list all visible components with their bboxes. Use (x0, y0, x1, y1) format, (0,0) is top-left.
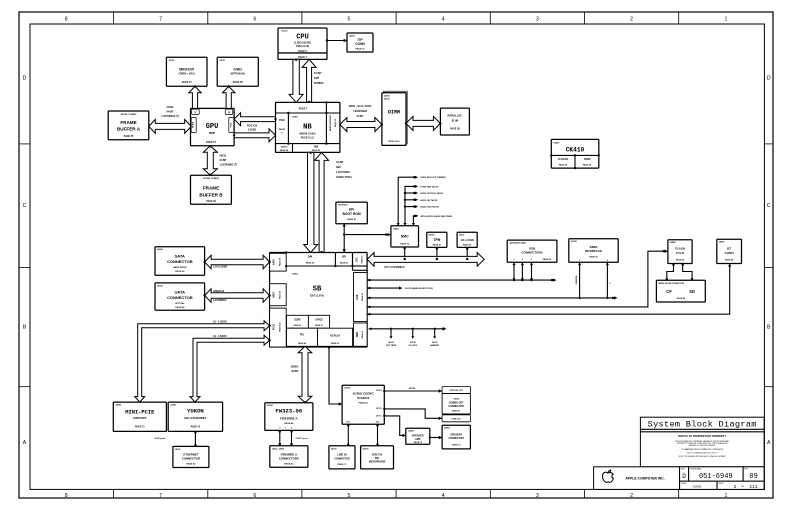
svg-text:U4200: U4200 (408, 430, 415, 433)
svg-text:(OPTION 64): (OPTION 64) (231, 73, 245, 76)
svg-text:U4600: U4600 (363, 447, 370, 450)
svg-text:PAGE 10,11: PAGE 10,11 (301, 137, 315, 140)
block SPEAKER CONNECTOR J4600 (442, 425, 470, 449)
svg-text:CORE: CORE (294, 319, 301, 322)
svg-text:PAGE 38: PAGE 38 (175, 306, 185, 309)
svg-text:SMB: SMB (357, 332, 359, 337)
svg-text:3.3V/33MHZ: 3.3V/33MHZ (213, 299, 227, 302)
svg-text:1.05/700MHZ (T): 1.05/700MHZ (T) (161, 116, 179, 118)
block FRAME BUFFER A (108, 111, 149, 140)
svg-text:DMI: DMI (308, 256, 313, 259)
svg-text:PAGE 7: PAGE 7 (299, 107, 308, 110)
svg-text:PAGE 72: PAGE 72 (135, 426, 145, 429)
svg-text:GPU: GPU (206, 123, 219, 131)
wire usb connector pin 514 (513, 262, 516, 281)
bus GPU to MINI-DVI (189, 85, 201, 108)
svg-text:MINI-PCIE: MINI-PCIE (125, 410, 155, 416)
svg-text:J4200: J4200 (349, 35, 355, 38)
svg-text:PAGE 60: PAGE 60 (359, 402, 369, 405)
svg-text:CONNECTOR: CONNECTOR (449, 405, 465, 408)
svg-text:D: D (682, 473, 686, 480)
svg-text:IVAD: IVAD (234, 67, 243, 71)
svg-text:CLOCKS: CLOCKS (558, 158, 568, 161)
svg-text:AZALIA: AZALIA (330, 334, 340, 338)
svg-text:D: D (767, 76, 771, 82)
wires SMC sensor signals (397, 176, 453, 226)
svg-text:U2500: U2500 (292, 274, 299, 276)
bus SB pcie x1 to MINI-PCIE (135, 321, 271, 404)
svg-text:PAGE 44: PAGE 44 (298, 342, 307, 345)
svg-text:DIMM: DIMM (388, 110, 400, 116)
svg-text:M56P: M56P (209, 132, 216, 135)
svg-text:U5110: U5110 (388, 342, 395, 344)
svg-text:SPI: SPI (342, 256, 346, 259)
block CPU U0700 (278, 28, 327, 59)
svg-text:PAGE 53: PAGE 53 (340, 262, 349, 265)
svg-text:CONNECTORS: CONNECTORS (521, 251, 542, 255)
block FW323-06 U3900 (265, 403, 313, 431)
svg-text:CONNECTOR: CONNECTOR (182, 457, 200, 461)
svg-text:DDR2 MEMORY: DDR2 MEMORY (330, 114, 332, 131)
svg-text:U0700: U0700 (282, 31, 289, 33)
wire usb connector pin 532 (530, 262, 533, 281)
svg-text:X4-BIT: X4-BIT (336, 161, 344, 164)
wire mic to codec (376, 424, 378, 446)
svg-text:PAGE 15: PAGE 15 (334, 118, 337, 127)
bus PCI to FW323 (298, 346, 312, 403)
svg-text:J4110: J4110 (459, 234, 465, 237)
svg-text:System Block Diagram: System Block Diagram (648, 420, 757, 430)
svg-text:J4204: J4204 (157, 284, 163, 287)
svg-text:FW323-06: FW323-06 (275, 408, 302, 415)
svg-text:PAGE 39: PAGE 39 (175, 270, 185, 273)
svg-text:AMP: AMP (415, 438, 421, 441)
wire camera pin 1 (575, 262, 581, 299)
svg-text:PARALLEL: PARALLEL (448, 114, 463, 118)
svg-text:CONNECTORS: CONNECTORS (279, 457, 299, 461)
svg-text:8: 8 (65, 17, 68, 23)
bus UATA to SB (203, 289, 270, 303)
svg-text:PAGE 6: PAGE 6 (298, 50, 307, 53)
block I2C+ CONN J4110 (457, 232, 477, 247)
svg-text:CPU TEMP: CPU TEMP (386, 345, 397, 347)
svg-text:57: 57 (194, 112, 196, 114)
svg-text:5: 5 (348, 17, 351, 23)
wire USB wake line B (367, 286, 433, 290)
label frame buffer A bus (161, 106, 179, 118)
svg-text:GPIOS: GPIOS (315, 319, 323, 322)
svg-text:PAGE 40: PAGE 40 (543, 258, 552, 261)
svg-text:U2900: U2900 (170, 405, 177, 407)
svg-text:FRAME: FRAME (203, 186, 219, 191)
svg-text:PAGE 72: PAGE 72 (414, 441, 423, 444)
bus SATA to SB (203, 255, 270, 269)
svg-text:BT: BT (727, 247, 731, 251)
svg-text:PAGE 51: PAGE 51 (355, 48, 365, 51)
svg-text:7: 7 (159, 17, 162, 23)
svg-text:VIDEO: VIDEO (281, 147, 288, 149)
svg-text:LPC: LPC (357, 257, 359, 262)
svg-text:FRAME: FRAME (120, 120, 136, 125)
svg-text:PAGE 60: PAGE 60 (331, 342, 339, 345)
svg-text:GIG ETHERNET: GIG ETHERNET (184, 416, 207, 420)
svg-text:PAGE 48: PAGE 48 (725, 259, 734, 262)
svg-text:CONNECTOR: CONNECTOR (334, 457, 350, 460)
svg-text:U3900: U3900 (267, 405, 274, 407)
svg-text:LINE OUT: LINE OUT (452, 418, 462, 420)
svg-text:8: 8 (65, 493, 68, 499)
svg-text:FLASH: FLASH (675, 247, 685, 251)
wire SMB sensor J4120 (430, 328, 440, 348)
svg-text:J4500: J4500 (384, 98, 390, 101)
svg-text:64-BIT: 64-BIT (220, 159, 228, 162)
svg-text:PAGE 14,15: PAGE 14,15 (388, 140, 400, 143)
svg-text:J4700: J4700 (169, 59, 175, 62)
svg-text:OPTICAL: OPTICAL (175, 302, 185, 305)
svg-text:PAGE 39: PAGE 39 (279, 258, 282, 266)
block FLASH CTLR U4950 (668, 240, 692, 264)
svg-text:U5120: U5120 (410, 342, 417, 344)
svg-text:1.25/2.5GBS: 1.25/2.5GBS (336, 171, 350, 174)
block NB U1800 northbridge (276, 101, 340, 152)
wire EFI to SMC (344, 233, 391, 236)
wire bt pin (728, 264, 731, 268)
svg-text:HS SPI/V3: HS SPI/V3 (338, 205, 348, 207)
svg-text:64-BIT: 64-BIT (166, 111, 174, 114)
svg-text:2: 2 (522, 259, 523, 261)
svg-text:PAGE 48: PAGE 48 (676, 259, 685, 262)
svg-text:CONN: CONN (355, 42, 365, 46)
svg-text:7: 7 (159, 493, 162, 499)
svg-text:1: 1 (724, 17, 727, 23)
svg-text:FSB: FSB (314, 77, 319, 80)
block BUILT-IN MICROPHONE (361, 446, 394, 469)
label pcie x16 (247, 125, 258, 131)
svg-text:SATA: SATA (273, 259, 276, 265)
svg-text:945GM (1.05V): 945GM (1.05V) (299, 133, 316, 136)
svg-text:J4500/J4510/J4520: J4500/J4510/J4520 (509, 241, 526, 244)
svg-text:PAGE 71: PAGE 71 (337, 463, 347, 466)
svg-text:J4500: J4500 (116, 404, 122, 407)
svg-text:PAGE 47: PAGE 47 (315, 324, 323, 327)
svg-text:SIZE: SIZE (681, 468, 685, 470)
svg-text:OPTICAL OUT: OPTICAL OUT (449, 389, 463, 392)
wire SMB sensor U5110 (386, 328, 397, 348)
svg-text:ICH7 (1.05V): ICH7 (1.05V) (310, 295, 324, 298)
wire USB bluetooth line E (367, 266, 730, 316)
svg-text:09: 09 (749, 473, 757, 481)
wire line in to codec (347, 424, 349, 446)
svg-text:HARD DRIVE: HARD DRIVE (173, 266, 187, 269)
wire SMB bus (369, 327, 447, 330)
svg-text:PAGE 58: PAGE 58 (280, 149, 289, 152)
svg-text:CTLR: CTLR (676, 251, 685, 255)
svg-text:SATA: SATA (175, 254, 185, 259)
title block apple logo (594, 467, 680, 490)
bus NB to DIMM (340, 118, 383, 132)
svg-text:LINE IN: LINE IN (337, 453, 346, 457)
svg-text:PAGE 54: PAGE 54 (583, 164, 592, 167)
label x1 ethernet (213, 335, 227, 338)
label 2 fw ports (296, 437, 309, 440)
svg-text:USB: USB (357, 294, 359, 299)
label uata bus (213, 290, 227, 302)
svg-text:SD: SD (689, 289, 695, 294)
svg-text:OUT B: OUT B (376, 408, 383, 410)
svg-text:3: 3 (536, 17, 539, 23)
svg-text:PAGE 38: PAGE 38 (279, 291, 282, 299)
svg-text:AIRPORT: AIRPORT (133, 416, 147, 420)
svg-text:10GBS TOTAL: 10GBS TOTAL (336, 176, 353, 179)
svg-text:64X32: 64X32 (220, 155, 227, 158)
svg-text:II NOT TO REPRODUCE OR COPY IT: II NOT TO REPRODUCE OR COPY IT (687, 453, 719, 455)
svg-text:U1800: U1800 (292, 117, 299, 119)
svg-text:PCI: PCI (300, 333, 305, 337)
svg-text:J4120: J4120 (432, 341, 438, 344)
wire USB camera line C (367, 296, 617, 299)
svg-text:64-BIT: 64-BIT (356, 115, 364, 118)
svg-text:4: 4 (442, 17, 445, 23)
svg-text:X1 - 1.5GBS: X1 - 1.5GBS (213, 320, 227, 323)
svg-text:64-BIT: 64-BIT (314, 72, 322, 75)
wire flash to CF (666, 264, 675, 281)
bus NB to GPU pcie (234, 113, 277, 126)
svg-text:S1000 FAN TACH0: S1000 FAN TACH0 (420, 185, 439, 188)
label 4 diff pairs (154, 437, 166, 440)
svg-text:I2C+ CONN: I2C+ CONN (461, 239, 474, 242)
svg-text:U4900: U4900 (393, 227, 400, 230)
wire AZALIA to codec (328, 346, 342, 405)
block BT CONN J4905 (717, 239, 742, 263)
svg-text:J4300, J4400: J4300, J4400 (272, 447, 285, 450)
svg-text:2 EXT ports: 2 EXT ports (296, 437, 309, 440)
svg-text:4 diff pairs: 4 diff pairs (154, 437, 166, 440)
block AUDIO CODEC STA9221 U3500 (342, 385, 384, 424)
block COMBO OUT CONNECTOR J4100 (442, 387, 470, 422)
svg-text:SLIM: SLIM (452, 119, 459, 123)
svg-text:PAGE 40: PAGE 40 (361, 293, 364, 301)
bus GPU to FRAME BUFFER A (149, 119, 191, 133)
svg-text:A1015 (WAKE BLUETOOTH): A1015 (WAKE BLUETOOTH) (405, 287, 433, 290)
svg-text:DMI: DMI (336, 166, 341, 169)
wire TPM to LPC (436, 247, 438, 260)
svg-text:PAGE 47: PAGE 47 (361, 331, 364, 339)
svg-text:OUT C: OUT C (376, 416, 383, 418)
svg-text:MINI-DVI: MINI-DVI (179, 67, 194, 71)
svg-text:1.05/700MHZ (T): 1.05/700MHZ (T) (220, 164, 238, 166)
block ETHERNET CONNECTOR J5100 (173, 446, 209, 467)
svg-text:J4905: J4905 (719, 241, 725, 244)
block ITP CONN J4200 (347, 33, 373, 52)
wire FW323 port0 (278, 430, 281, 445)
svg-text:PAGE: PAGE (279, 128, 286, 131)
bus GPU to FRAME BUFFER B (203, 145, 217, 176)
svg-text:(TMDS + VGA): (TMDS + VGA) (179, 73, 195, 76)
svg-text:UATA: UATA (175, 290, 186, 295)
svg-text:PAGE 44: PAGE 44 (284, 422, 294, 425)
wire codec OUT C to speaker amp (383, 415, 406, 437)
svg-text:J4000: J4000 (384, 95, 390, 98)
svg-text:8X32M, 700MHZ: 8X32M, 700MHZ (121, 114, 137, 116)
svg-text:PAGE 43: PAGE 43 (186, 463, 196, 466)
svg-text:PAGE 45: PAGE 45 (284, 463, 294, 466)
block IVAD option connector (217, 57, 258, 86)
svg-text:PAGE 72: PAGE 72 (452, 444, 461, 447)
wire SMC to LPC (404, 247, 406, 260)
svg-text:C: C (767, 203, 771, 209)
svg-text:J4710: J4710 (219, 59, 225, 62)
svg-text:CF: CF (666, 289, 672, 294)
wire I2C to LPC (466, 247, 468, 260)
block FIREWIRE A CONNECTORS (270, 446, 308, 468)
wire EFI to SPI (343, 224, 346, 253)
label DMI (336, 161, 353, 179)
block SMC U4900 (391, 226, 419, 247)
svg-text:TERM: TERM (584, 158, 591, 161)
svg-text:U5300: U5300 (571, 241, 578, 243)
svg-text:J5100: J5100 (175, 449, 181, 451)
svg-text:III NOT TO REVEAL OR PUBLISH I: III NOT TO REVEAL OR PUBLISH IT IN WHOLE… (679, 455, 727, 458)
svg-text:A3001 HD TACH2: A3001 HD TACH2 (420, 199, 438, 202)
svg-text:CK410: CK410 (566, 147, 585, 154)
svg-text:BOOT ROM: BOOT ROM (343, 212, 361, 216)
svg-text:PCIE: PCIE (279, 119, 285, 122)
svg-text:2: 2 (607, 260, 608, 262)
svg-text:DDR2 ~ DUAL CHAN: DDR2 ~ DUAL CHAN (349, 105, 372, 108)
wire camera pin 2 (606, 262, 612, 299)
wire CPU to ITP (326, 39, 347, 42)
svg-text:33MHZ: 33MHZ (291, 366, 299, 369)
svg-text:U3500: U3500 (344, 388, 351, 390)
svg-text:PAGE 61: PAGE 61 (452, 410, 461, 413)
svg-text:IN 1: IN 1 (347, 422, 350, 424)
svg-text:667MHZ: 667MHZ (314, 82, 324, 85)
svg-text:I TO MAINTAIN THIS DOCUMENT IN: I TO MAINTAIN THIS DOCUMENT IN CONFIDENC… (681, 448, 724, 451)
wire SMB sensor U5120 (409, 328, 418, 348)
svg-text:1: 1 (724, 493, 727, 499)
wire USB port line A (367, 278, 556, 281)
label LPC bus (384, 266, 405, 269)
svg-text:AGREES TO THE FOLLOWING:: AGREES TO THE FOLLOWING: (689, 444, 716, 447)
svg-text:32-BIT: 32-BIT (291, 370, 299, 373)
svg-text:U4700: U4700 (429, 234, 436, 237)
svg-text:PCIE X16: PCIE X16 (247, 125, 258, 127)
svg-text:1.5V/1.5GBS: 1.5V/1.5GBS (213, 266, 227, 269)
svg-text:AUDIO CODEC: AUDIO CODEC (353, 392, 375, 396)
svg-text:PAGE 38: PAGE 38 (450, 128, 460, 131)
label ddr2 bus (349, 105, 372, 118)
svg-text:PAGE 47: PAGE 47 (589, 256, 598, 259)
svg-text:J4600: J4600 (444, 427, 450, 430)
svg-text:2: 2 (630, 17, 633, 23)
svg-text:2.5GBS: 2.5GBS (248, 130, 257, 132)
bus FSB down arrow (289, 59, 303, 103)
block PARALLEL SLIM drive (440, 108, 469, 135)
svg-text:CPU: CPU (296, 34, 309, 42)
svg-text:AT051 ADC/LCD THERMS: AT051 ADC/LCD THERMS (420, 176, 446, 179)
svg-text:8X32M, 700MHZ: 8X32M, 700MHZ (203, 178, 219, 180)
svg-text:58: 58 (228, 112, 230, 114)
svg-text:J4100: J4100 (331, 447, 337, 450)
title block drawing number (680, 467, 765, 481)
svg-text:S2000 OPTICAL TACH1: S2000 OPTICAL TACH1 (420, 192, 444, 195)
svg-text:PS LM75: PS LM75 (409, 345, 418, 347)
label FSB (314, 72, 324, 85)
svg-text:NB: NB (303, 124, 312, 132)
svg-text:PAGE 47: PAGE 47 (347, 218, 357, 221)
svg-text:S/PDIF: S/PDIF (408, 388, 416, 390)
svg-text:SHEET: SHEET (719, 483, 724, 485)
block BMDI INTERFACE U5300 (569, 239, 618, 262)
svg-text:64X32: 64X32 (167, 106, 174, 109)
svg-text:6: 6 (253, 17, 256, 23)
svg-text:1.8V/667MHZ: 1.8V/667MHZ (353, 111, 368, 113)
svg-text:BUFFER B: BUFFER B (199, 193, 223, 198)
svg-text:UATA: UATA (273, 292, 276, 298)
block MINI-DVI connector J4700 (166, 57, 207, 86)
svg-text:PAGE 70: PAGE 70 (400, 243, 410, 246)
wire usb connector pin 522 (521, 262, 524, 281)
svg-text:STA9221: STA9221 (357, 396, 370, 400)
wire YUKON to ETHERNET CONN (194, 431, 196, 446)
block EFI BOOT ROM (336, 202, 367, 224)
svg-text:DWG NUMBER: DWG NUMBER (690, 468, 702, 470)
wire FW323 port1 (290, 430, 293, 445)
label frame buffer B bus (220, 155, 238, 167)
svg-text:PAGE 57: PAGE 57 (182, 81, 193, 84)
svg-text:CONNECTOR: CONNECTOR (167, 295, 193, 300)
bus DMI down arrow (304, 152, 318, 253)
svg-text:PCI-E: PCI-E (274, 323, 276, 330)
svg-text:FB A/B: FB A/B (192, 121, 195, 128)
bus GPU to IVAD (223, 85, 235, 108)
block UATA CONNECTOR J4204 (155, 283, 205, 310)
svg-text:D: D (23, 76, 27, 82)
wire USB flash line D (367, 250, 668, 309)
svg-text:A3002 ODD TACH3: A3002 ODD TACH3 (420, 206, 440, 209)
svg-text:PAGE 57: PAGE 57 (206, 141, 217, 144)
block USB CONNECTORS (507, 240, 557, 262)
svg-text:UDMA100: UDMA100 (213, 290, 225, 293)
block YUKON GIG ETHERNET U2900 (168, 402, 222, 431)
svg-text:1: 1 (579, 260, 580, 262)
bus GPU to NB pcie (233, 129, 276, 142)
svg-text:YUKON: YUKON (187, 408, 204, 415)
svg-text:MICROPHONE: MICROPHONE (369, 461, 386, 464)
svg-text:PAGE 53: PAGE 53 (312, 149, 321, 152)
svg-text:PAGE 58: PAGE 58 (233, 81, 244, 84)
svg-text:X1 - 1.5GBS: X1 - 1.5GBS (213, 335, 227, 338)
svg-text:PAGE 41: PAGE 41 (191, 426, 201, 429)
svg-text:FSB (x4,x6): FSB (x4,x6) (296, 45, 309, 48)
svg-text:PAGE 9,10: PAGE 9,10 (279, 322, 282, 331)
svg-text:PAGE 54: PAGE 54 (559, 164, 568, 167)
svg-text:CONNECTOR: CONNECTOR (167, 259, 193, 264)
svg-text:PAGE 7: PAGE 7 (298, 56, 307, 59)
svg-text:NOTICE OF PROPRIETARY PROPERTY: NOTICE OF PROPRIETARY PROPERTY (678, 434, 726, 438)
block DIMM slots J4000 J4500 (382, 91, 408, 145)
wire amp to speaker conn (429, 436, 443, 439)
svg-text:051-6949: 051-6949 (699, 473, 733, 481)
svg-text:B: B (23, 325, 27, 331)
block SB U2500 southbridge (270, 251, 368, 347)
svg-text:PAGE 53: PAGE 53 (306, 262, 315, 265)
svg-text:C: C (23, 203, 27, 209)
svg-text:PCIE: PCIE (230, 122, 232, 127)
svg-text:TPM: TPM (434, 238, 441, 242)
svg-text:4: 4 (442, 493, 445, 499)
svg-text:AMBIENT: AMBIENT (430, 344, 440, 347)
